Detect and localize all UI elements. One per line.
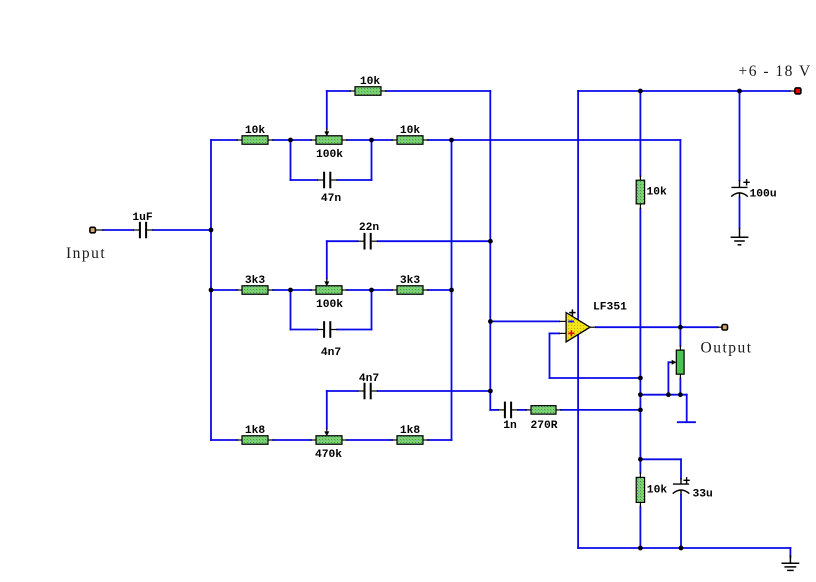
resistor R 1k8 band3 right — [397, 436, 423, 445]
wire black leads R 10k vertical top — [639, 176, 641, 181]
ground below 100u — [731, 228, 749, 245]
node band1 cap right — [369, 138, 374, 143]
wire top rail y=91 — [578, 90, 790, 92]
terminal output — [722, 325, 728, 331]
wire op-amp minus input — [490, 320, 559, 322]
wire 4n7 loop left band2 — [290, 290, 292, 330]
svg-text:22n: 22n — [359, 222, 380, 234]
wire black leads R 1k8 left — [237, 439, 243, 441]
wire band3 row y=440 — [211, 439, 237, 441]
wire bias bus x=640.4 — [639, 91, 641, 176]
resistor R 10k vertical bottom — [636, 477, 644, 502]
resistor R 10k band1 left — [242, 136, 268, 145]
wire band1 row y=140 — [211, 139, 237, 141]
node band2 right bus — [449, 288, 454, 293]
svg-text:47n: 47n — [321, 193, 342, 205]
wire virtual ground bus x=490.3 — [489, 91, 491, 410]
wire 33u branch top y=459.3 — [640, 458, 681, 460]
svg-text:4n7: 4n7 — [321, 347, 342, 359]
wire stub to pot ground bar — [686, 395, 688, 422]
node band1 right bus — [449, 138, 454, 143]
capacitor C 33u electrolytic — [673, 477, 690, 495]
wire bottom rail y=548 — [578, 547, 790, 549]
potentiometer 470k band3 — [316, 429, 342, 445]
svg-text:4n7: 4n7 — [359, 373, 380, 385]
wire black leads pot 470k — [311, 439, 317, 441]
wire black lead output terminal — [718, 326, 723, 328]
wire black leads pot 100k band1 — [311, 139, 317, 141]
node 33u branch — [638, 457, 643, 462]
svg-text:10k: 10k — [400, 125, 421, 137]
ground main bottom right — [782, 555, 800, 570]
wire feedback top y=91 — [327, 90, 350, 92]
wire 4n7 line y=391 band3 — [327, 390, 358, 392]
capacitor 47n — [323, 172, 331, 189]
node top rail 100u — [737, 89, 742, 94]
capacitor 1n — [504, 402, 512, 419]
resistor R 1k8 band3 left — [242, 436, 268, 445]
potentiometer 100k band2 — [316, 279, 342, 295]
capacitor C 100u electrolytic — [731, 179, 750, 198]
svg-text:3k3: 3k3 — [400, 275, 421, 287]
resistor R 3k3 band2 right — [397, 286, 423, 295]
resistor R 3k3 band2 left — [242, 286, 268, 295]
wire pot ground bar — [678, 421, 695, 423]
svg-text:33u: 33u — [693, 489, 713, 501]
svg-text:+6 - 18 V: +6 - 18 V — [739, 63, 812, 80]
wire black leads 47n — [317, 179, 323, 181]
wire black leads pot 100k band2 — [311, 289, 317, 291]
svg-text:10k: 10k — [360, 76, 381, 88]
wire 22n line y=241.2 — [327, 240, 358, 242]
wire pot wiper to node — [668, 361, 671, 363]
potentiometer 100k band1 — [316, 129, 342, 145]
wire node line y=394.7 — [640, 394, 686, 396]
svg-text:10k: 10k — [647, 485, 668, 497]
wire main input vertical bus x=211 — [210, 140, 212, 440]
wire black leads 4n7 band3 — [358, 390, 364, 392]
wire black leads R 3k3 right — [392, 289, 398, 291]
wire 47n loop left — [290, 140, 292, 180]
node band2 cap right — [369, 288, 374, 293]
svg-text:1uF: 1uF — [132, 212, 153, 224]
node pot wiper — [666, 392, 671, 397]
node 4n7 to virtual ground — [488, 389, 493, 394]
svg-text:Output: Output — [701, 339, 753, 356]
wire 100u branch vertical — [739, 91, 741, 181]
wire output vertical x=680.4 — [679, 140, 681, 346]
wire 47n loop bottom — [291, 179, 318, 181]
node band2 left junction — [209, 288, 214, 293]
svg-text:100k: 100k — [316, 149, 343, 161]
wire black leads 1n — [498, 409, 504, 411]
wire black leads 4n7 band2 — [317, 329, 323, 331]
wire black leads 22n — [358, 240, 364, 242]
wire 4n7 loop bottom band2 — [291, 329, 318, 331]
node band1 cap left — [288, 138, 293, 143]
svg-text:100k: 100k — [316, 299, 343, 311]
wire black leads R 10k feedback — [350, 90, 356, 92]
node input junction — [209, 228, 214, 233]
potentiometer output level — [671, 350, 685, 374]
wire band3 wiper riser — [326, 391, 328, 429]
wire black leads output pot — [679, 346, 681, 351]
node plus loop to bias — [638, 376, 643, 381]
svg-text:10k: 10k — [245, 125, 266, 137]
svg-text:470k: 470k — [315, 449, 342, 461]
wire black leads R 3k3 left — [237, 289, 243, 291]
capacitor 4n7 band3 — [364, 383, 372, 400]
node output junction — [678, 325, 683, 330]
wire 4n7 loop right band2 — [371, 290, 373, 330]
svg-text:100u: 100u — [750, 189, 777, 201]
resistor R 10k band1 right — [397, 136, 423, 145]
resistor R 10k feedback — [355, 87, 381, 96]
node band2 cap left — [288, 288, 293, 293]
node bottom rail bias — [638, 546, 643, 551]
wire band1 wiper riser — [326, 91, 328, 129]
wire V+ supply vertical x=578.1 — [577, 91, 579, 548]
wire main ground stub — [789, 548, 791, 557]
svg-text:1n: 1n — [503, 420, 517, 432]
wire op-amp plus loop — [550, 332, 560, 334]
svg-text:270R: 270R — [530, 420, 557, 432]
capacitor C1 1uF — [139, 222, 147, 239]
wire right vertical bus x=451.5 — [451, 140, 453, 440]
svg-text:1k8: 1k8 — [400, 425, 421, 437]
wire black leads op-amp pins — [559, 320, 566, 322]
svg-text:3k3: 3k3 — [245, 275, 266, 287]
node minus input tap — [488, 319, 493, 324]
node pot bottom — [678, 392, 683, 397]
node 270R to bias — [638, 408, 643, 413]
wire black leads R 1k8 right — [392, 439, 398, 441]
wire black leads R 10k vertical bottom — [639, 473, 641, 478]
wire black leads R 10k band1 right — [392, 139, 398, 141]
resistor R 270R — [531, 406, 556, 415]
node bottom rail 33u — [679, 546, 684, 551]
op-amp U1 LF351 — [566, 309, 590, 342]
svg-text:1k8: 1k8 — [245, 425, 266, 437]
wire band2 row y=290 — [211, 289, 237, 291]
wire black leads R 10k band1 left — [237, 139, 243, 141]
wire op-amp output row y=327.2 — [596, 326, 718, 328]
wire black lead input terminal — [95, 229, 103, 231]
svg-text:Input: Input — [66, 245, 106, 262]
resistor R 10k vertical top — [636, 180, 644, 204]
wire 1n-270R line y=409.9 — [490, 409, 498, 411]
wire 33u branch vertical — [680, 459, 682, 478]
terminal V+ — [795, 88, 801, 94]
wire 47n loop right — [371, 140, 373, 180]
capacitor 4n7 band2 — [323, 321, 331, 338]
wire black lead power terminal — [790, 90, 795, 92]
wire black leads 1uF — [133, 229, 139, 231]
wire band2 wiper riser — [326, 241, 328, 278]
wire input lead — [103, 229, 133, 231]
node 22n to virtual ground — [488, 239, 493, 244]
capacitor 22n — [364, 233, 372, 250]
svg-text:LF351: LF351 — [593, 302, 627, 314]
wire input cap to summing node — [153, 229, 211, 231]
svg-text:10k: 10k — [647, 186, 668, 198]
node top rail bias — [638, 89, 643, 94]
wire black leads R 270R — [526, 409, 532, 411]
node bias y394 — [638, 392, 643, 397]
terminal input — [90, 227, 96, 233]
